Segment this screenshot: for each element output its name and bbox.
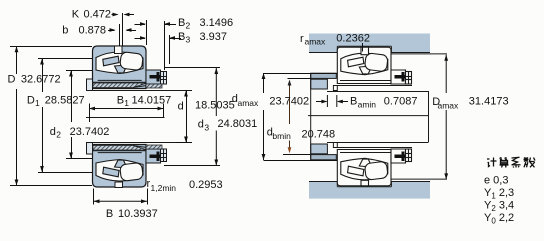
bearing outer block bottom half (93, 145, 147, 188)
svg-text:B: B (117, 95, 124, 107)
系 (512, 156, 520, 159)
svg-text:0.2953: 0.2953 (189, 179, 223, 191)
right nut bottom (391, 149, 406, 163)
dim B2 extension line (164, 21, 166, 70)
centerline left view (86, 117, 165, 119)
housing band top (309, 34, 430, 53)
dim d3 line (215, 68, 217, 116)
dim B2 arrows (135, 24, 146, 26)
svg-text:amin: amin (358, 100, 377, 110)
housing seat cutout bottom (337, 181, 391, 187)
lock nut bottom (146, 149, 161, 163)
abutment ring bottom (311, 155, 337, 160)
dim B1 line (89, 108, 164, 110)
lock washer tab slot top (115, 46, 123, 54)
r_amax leader (362, 43, 364, 52)
cage wedge center (115, 65, 128, 73)
dim B3 arrows (135, 38, 146, 40)
right sleeve lines bottom (334, 147, 412, 149)
housing shoulder line bottom (391, 178, 447, 180)
svg-text:0.878: 0.878 (79, 25, 107, 37)
dim B line (94, 200, 148, 202)
svg-text:0.472: 0.472 (84, 9, 112, 21)
header 计算系数 drawn as strokes (487, 157, 535, 167)
svg-text:amax: amax (438, 101, 460, 111)
svg-text:20.748: 20.748 (302, 129, 336, 141)
svg-text:23.7402: 23.7402 (70, 126, 110, 138)
lock washer tab slot bottom (115, 182, 123, 188)
sleeve left stub top (87, 79, 93, 91)
dim d_bmin extension line top (288, 78, 312, 80)
svg-text:D: D (27, 95, 35, 107)
svg-text:2: 2 (186, 21, 191, 31)
svg-text:28.5827: 28.5827 (45, 95, 85, 107)
dim B3 extension line (169, 35, 171, 64)
svg-text:1: 1 (35, 98, 40, 108)
dim D line (16, 46, 18, 74)
svg-text:d: d (198, 119, 204, 131)
svg-text:B: B (106, 208, 113, 220)
svg-text:e 0,3: e 0,3 (484, 175, 508, 187)
dim d_bmin extension line bottom (283, 154, 311, 156)
d_bmin dimension line with arrows (288, 80, 292, 154)
svg-text:Y0 2,2: Y0 2,2 (484, 212, 514, 226)
svg-text:B: B (178, 17, 185, 29)
shaft step face line (310, 73, 312, 160)
svg-text:bmin: bmin (272, 131, 291, 141)
bearing outer block top half (93, 46, 147, 89)
lock washer bar top (150, 75, 161, 79)
sleeve hatched section top (93, 83, 147, 88)
svg-text:1,2min: 1,2min (151, 183, 177, 193)
lock washer bar bottom (150, 155, 161, 159)
dim D_amax line (445, 55, 447, 93)
housing shoulder line top (391, 53, 447, 55)
svg-text:d: d (178, 101, 184, 113)
dim d2 line (71, 71, 73, 123)
cage wedge center bottom (115, 160, 128, 168)
right bearing bottom half (334, 148, 412, 186)
right sleeve lines top (334, 85, 412, 87)
svg-text:23.7402: 23.7402 (269, 96, 309, 108)
shaft end face (428, 91, 430, 142)
计 (487, 158, 490, 160)
svg-text:10.3937: 10.3937 (118, 208, 158, 220)
svg-text:K: K (72, 9, 80, 21)
sleeve hatched section bottom (93, 146, 147, 151)
shaft surface lines right view (327, 91, 429, 93)
sleeve end face bottom (335, 144, 337, 160)
shaft shoulder bottom (311, 144, 328, 154)
nut tail bottom (161, 149, 167, 162)
svg-text:B: B (350, 96, 357, 108)
svg-text:3.1496: 3.1496 (200, 17, 234, 29)
sleeve taper line top (133, 84, 161, 88)
svg-text:14.0157: 14.0157 (132, 95, 172, 107)
svg-text:d: d (50, 126, 56, 138)
svg-text:3.937: 3.937 (200, 31, 228, 43)
housing seat cutout top (337, 46, 391, 52)
nut tail top (161, 72, 167, 85)
svg-text:32.6772: 32.6772 (21, 74, 61, 86)
svg-text:31.4173: 31.4173 (469, 96, 509, 108)
lock nut top (146, 70, 161, 84)
right bearing top half (334, 47, 412, 85)
sleeve left stub bottom (87, 143, 93, 155)
svg-text:0.7087: 0.7087 (384, 96, 418, 108)
sleeve taper line bottom (133, 146, 161, 150)
dim D1 line (42, 59, 44, 93)
dim d line (186, 91, 188, 143)
svg-text:1: 1 (124, 98, 129, 108)
svg-text:amax: amax (238, 98, 260, 108)
left roller (section, shaded) (103, 56, 119, 66)
svg-text:Y2 3,4: Y2 3,4 (484, 200, 514, 214)
svg-text:r: r (300, 33, 304, 45)
dim b arrows (108, 30, 115, 32)
table rows (484, 175, 514, 226)
svg-text:D: D (8, 74, 16, 86)
left roller bottom (section, shaded) (103, 167, 119, 177)
svg-text:24.8031: 24.8031 (218, 118, 258, 130)
cavity with rollers top half (96, 52, 143, 74)
dim K arrows (112, 14, 118, 16)
washer tab lines (119, 24, 121, 46)
shaft surface bottom (87, 142, 193, 144)
housing band bottom (309, 181, 430, 199)
sleeve end face top (335, 73, 337, 89)
dim B_amin ticks (326, 95, 328, 107)
sleeve stub right view bottom (333, 143, 337, 148)
centerline right view (308, 115, 429, 117)
svg-text:B: B (178, 31, 185, 43)
inner ring bore line (98, 79, 142, 81)
svg-text:3: 3 (186, 35, 191, 45)
right roller bottom (120, 162, 144, 181)
dim d_amax line (263, 73, 265, 93)
right nut top (391, 70, 406, 84)
abutment ring top (311, 73, 337, 78)
svg-text:2: 2 (56, 130, 61, 140)
cavity with rollers bottom half (96, 160, 143, 182)
bearing face extension line (146, 20, 148, 45)
shaft surface top (87, 90, 193, 92)
right roller (120, 52, 144, 71)
sleeve stub right view top (333, 86, 337, 91)
数 (525, 157, 527, 162)
svg-text:0.2362: 0.2362 (336, 33, 370, 45)
svg-text:18.5035: 18.5035 (195, 100, 235, 112)
svg-text:Y1 2,3: Y1 2,3 (484, 187, 514, 201)
svg-text:3: 3 (204, 123, 209, 133)
svg-text:amax: amax (305, 37, 327, 47)
算 (500, 158, 508, 161)
shaft shoulder top (311, 79, 328, 89)
sleeve thread section top (146, 84, 162, 88)
dim B_amin arrows (316, 101, 326, 103)
svg-text:b: b (62, 25, 68, 37)
inner ring bore line bottom (98, 152, 142, 154)
sleeve thread section bottom (146, 145, 162, 149)
